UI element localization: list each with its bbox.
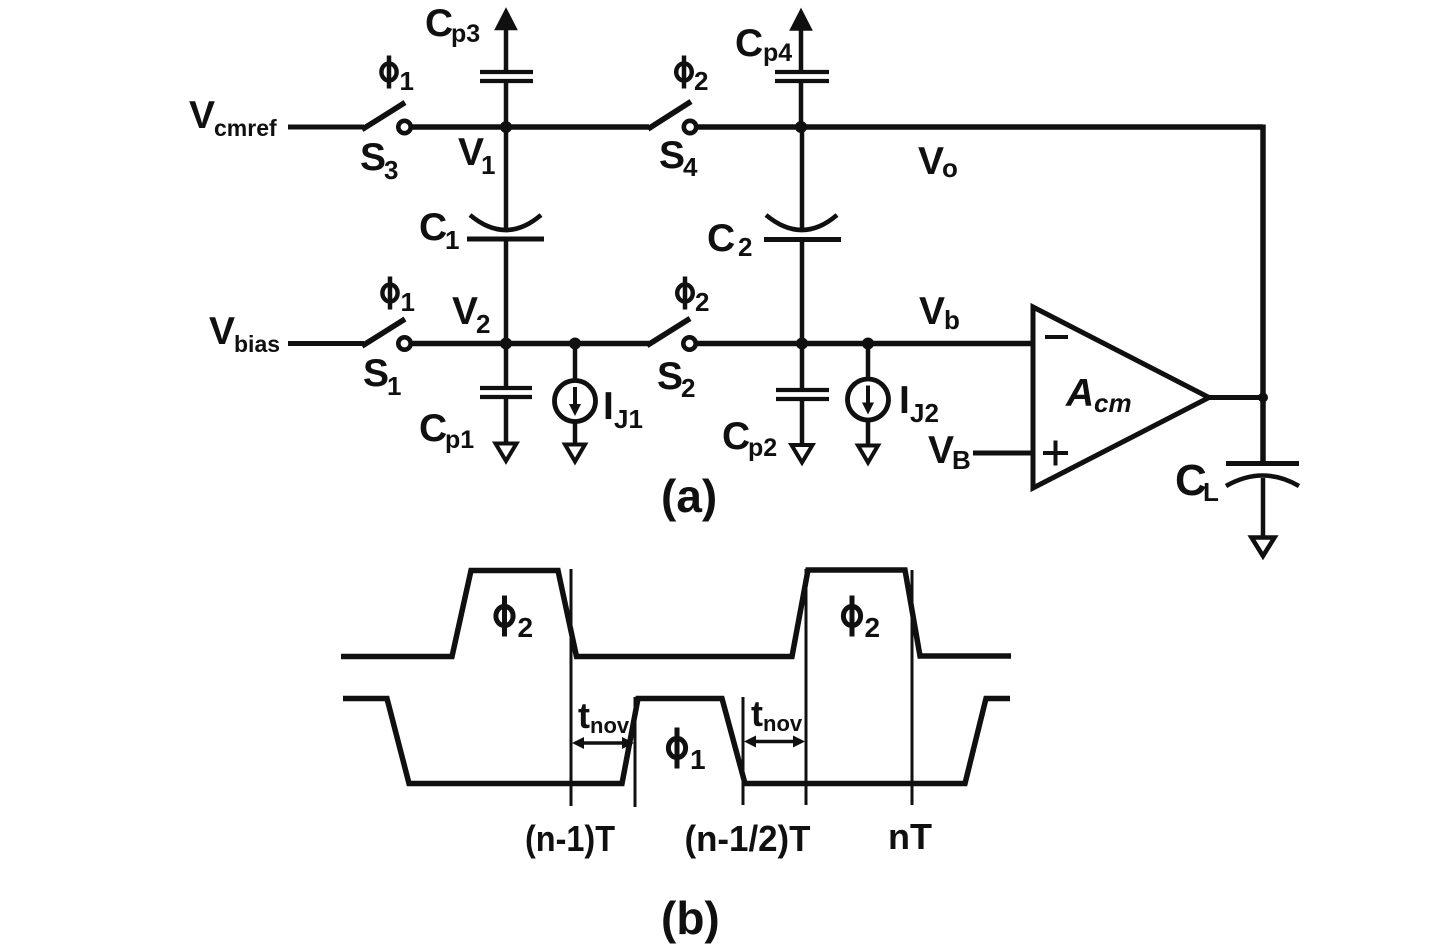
svg-text:4: 4	[683, 152, 698, 182]
label CL	[1175, 456, 1219, 507]
label S1	[363, 352, 401, 401]
label VB	[928, 429, 971, 475]
svg-text:C: C	[707, 217, 735, 260]
node V2	[500, 338, 512, 350]
current source IJ2	[848, 344, 889, 463]
svg-text:(b): (b)	[661, 892, 720, 944]
svg-text:C: C	[1175, 456, 1207, 505]
capacitor C1	[467, 127, 544, 344]
label C2	[707, 217, 752, 262]
svg-text:1: 1	[690, 744, 706, 775]
label Vcmref	[189, 94, 277, 141]
svg-text:B: B	[952, 445, 971, 475]
capacitor Cp1	[480, 344, 532, 462]
svg-text:V: V	[919, 290, 945, 333]
node Vo junction	[795, 121, 807, 133]
switch S2	[647, 319, 696, 350]
label tnov 1	[578, 695, 630, 738]
svg-text:V: V	[209, 310, 235, 353]
wire S4 to feedback corner	[697, 124, 1263, 130]
capacitor Cp3	[480, 11, 533, 127]
svg-text:C: C	[419, 206, 447, 249]
svg-text:o: o	[942, 153, 958, 183]
svg-text:1: 1	[387, 371, 401, 401]
svg-text:2: 2	[681, 373, 695, 403]
svg-text:J2: J2	[910, 398, 939, 428]
svg-text:(a): (a)	[661, 470, 717, 522]
capacitor Cp4	[775, 12, 829, 128]
svg-text:1: 1	[481, 150, 495, 180]
label V2	[452, 290, 490, 339]
label Vb	[919, 290, 960, 335]
svg-text:p4: p4	[763, 39, 792, 67]
svg-text:p2: p2	[748, 434, 777, 462]
label S4	[659, 134, 698, 182]
wire S2 to op-amp	[697, 341, 1033, 347]
svg-text:3: 3	[384, 155, 398, 185]
wire feedback vertical	[1260, 125, 1266, 464]
label Cp4	[735, 22, 792, 67]
label phi1 pulse	[668, 728, 705, 776]
marker line phi1 falling edge	[742, 697, 745, 805]
svg-text:S: S	[360, 136, 386, 179]
svg-text:V: V	[928, 429, 954, 472]
waveform phi2 trace	[341, 570, 1011, 657]
label phi2 first pulse	[496, 596, 533, 644]
svg-text:(n-1)T: (n-1)T	[525, 818, 615, 859]
marker line (n-1/2)T	[805, 569, 808, 805]
svg-text:nT: nT	[888, 816, 932, 857]
svg-text:t: t	[751, 693, 763, 734]
svg-text:t: t	[578, 695, 590, 736]
label tnov 2	[751, 693, 803, 736]
svg-text:(n-1/2)T: (n-1/2)T	[685, 818, 811, 859]
svg-text:2: 2	[476, 309, 490, 339]
marker line nT	[911, 570, 914, 805]
tnov arrow 1	[572, 737, 634, 749]
node IJ2 tap	[862, 338, 874, 350]
label S2	[657, 355, 695, 403]
svg-text:S: S	[363, 352, 389, 395]
node V1	[500, 121, 512, 133]
node Cp2	[796, 338, 808, 350]
svg-text:2: 2	[694, 66, 708, 96]
op-amp U1 Acm	[1033, 307, 1209, 488]
label Cp1	[419, 407, 474, 454]
label phi1 of S3	[381, 56, 414, 97]
svg-text:p1: p1	[445, 426, 474, 454]
label S3	[360, 136, 398, 185]
svg-text:cmref: cmref	[214, 115, 277, 141]
node output	[1258, 393, 1268, 403]
wire VB to op-amp plus input	[973, 451, 1033, 456]
svg-text:S: S	[659, 134, 685, 177]
marker line phi1 rising edge	[634, 697, 637, 807]
node IJ1 tap	[569, 338, 581, 350]
label phi2 of S2	[677, 277, 709, 318]
label phi2 second pulse	[843, 596, 880, 644]
svg-text:2: 2	[518, 612, 534, 643]
svg-text:1: 1	[445, 225, 459, 255]
svg-text:S: S	[657, 355, 683, 398]
svg-text:1: 1	[400, 66, 414, 96]
wire S1 to S2	[412, 341, 649, 347]
switch S1	[362, 319, 411, 350]
switch S4	[648, 102, 696, 134]
svg-text:I: I	[603, 385, 614, 428]
op-amp plus sign	[1043, 441, 1068, 466]
wire Vcmref to S3	[288, 125, 364, 130]
svg-text:L: L	[1203, 477, 1219, 507]
svg-text:C: C	[419, 407, 447, 450]
svg-text:bias: bias	[234, 331, 280, 357]
label Cp3	[425, 2, 480, 48]
svg-text:2: 2	[738, 232, 752, 262]
svg-text:C: C	[425, 2, 453, 45]
label V1	[458, 131, 495, 180]
label Cp2	[722, 415, 777, 462]
wire op-amp output	[1209, 395, 1263, 400]
svg-text:p3: p3	[451, 20, 480, 48]
capacitor Cp2	[776, 344, 829, 463]
svg-text:V: V	[918, 140, 944, 183]
switch S3	[362, 103, 411, 134]
current source IJ1	[555, 344, 596, 462]
wire S3 to S4	[412, 124, 649, 130]
svg-text:nov: nov	[763, 711, 803, 736]
label Vbias	[209, 310, 280, 357]
svg-text:J1: J1	[614, 404, 643, 434]
svg-text:nov: nov	[590, 713, 630, 738]
label C1	[419, 206, 459, 255]
label IJ2	[899, 379, 939, 428]
wire Vbias to S1	[288, 341, 364, 346]
label phi1 of S1	[382, 277, 415, 318]
svg-text:2: 2	[865, 612, 881, 643]
svg-text:b: b	[944, 305, 960, 335]
waveform phi1 trace	[343, 699, 1010, 784]
op-amp minus sign	[1045, 335, 1068, 339]
svg-text:V: V	[189, 94, 215, 137]
svg-text:V: V	[452, 290, 478, 333]
svg-text:I: I	[899, 379, 910, 422]
svg-text:cm: cm	[1094, 388, 1132, 418]
label Acm	[1065, 372, 1132, 418]
label IJ1	[603, 385, 643, 434]
svg-text:A: A	[1065, 372, 1094, 415]
label phi2 of S4	[676, 56, 708, 97]
marker line (n-1)T	[570, 569, 573, 806]
svg-text:C: C	[722, 415, 750, 458]
capacitor CL	[1226, 464, 1299, 557]
svg-text:C: C	[735, 22, 763, 65]
svg-text:1: 1	[401, 287, 415, 317]
capacitor C2	[764, 127, 841, 344]
label Vo	[918, 140, 958, 183]
svg-text:2: 2	[695, 287, 709, 317]
tnov arrow 2	[744, 736, 805, 748]
